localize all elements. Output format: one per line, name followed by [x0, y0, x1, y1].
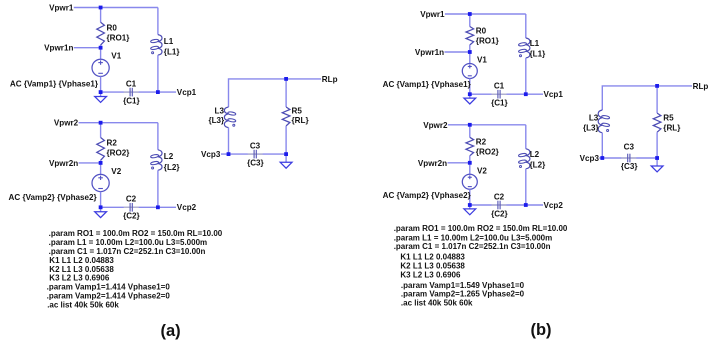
svg-text:.ac list 40k 50k 60k: .ac list 40k 50k 60k: [47, 301, 119, 310]
svg-text:Vpwr2: Vpwr2: [54, 119, 79, 128]
svg-text:L1: L1: [530, 39, 540, 48]
svg-text:Vcp2: Vcp2: [544, 201, 564, 210]
svg-text:AC {Vamp1} {Vphase1}: AC {Vamp1} {Vphase1}: [383, 80, 472, 89]
svg-text:C3: C3: [250, 141, 261, 150]
svg-text:V1: V1: [477, 56, 487, 65]
svg-text:.param C1 = 1.017n C2=252.1n C: .param C1 = 1.017n C2=252.1n C3=10.00n: [49, 247, 206, 256]
svg-text:R5: R5: [663, 114, 674, 123]
svg-text:.param RO1 = 100.0m RO2 = 150.: .param RO1 = 100.0m RO2 = 150.0m RL=10.0…: [394, 224, 568, 233]
svg-text:K2 L1 L3 0.05638: K2 L1 L3 0.05638: [49, 265, 114, 274]
svg-text:R5: R5: [292, 106, 303, 115]
svg-text:.ac list 40k 50k 60k: .ac list 40k 50k 60k: [401, 299, 473, 308]
svg-text:{RL}: {RL}: [292, 116, 310, 125]
svg-text:R0: R0: [476, 27, 487, 36]
svg-text:{L2}: {L2}: [530, 160, 547, 169]
svg-text:Vpwr1n: Vpwr1n: [44, 44, 73, 53]
svg-text:AC {Vamp1} {Vphase1}: AC {Vamp1} {Vphase1}: [10, 79, 99, 88]
svg-text:{RO2}: {RO2}: [107, 149, 131, 158]
svg-text:Vcp2: Vcp2: [177, 203, 197, 212]
svg-text:{C1}: {C1}: [491, 99, 508, 108]
svg-text:{L1}: {L1}: [530, 50, 547, 59]
svg-text:(b): (b): [530, 321, 551, 339]
svg-text:AC {Vamp2} {Vphase2}: AC {Vamp2} {Vphase2}: [9, 193, 98, 202]
svg-text:Vpwr1n: Vpwr1n: [415, 48, 444, 57]
svg-text:{C3}: {C3}: [621, 162, 638, 171]
svg-text:Vpwr2n: Vpwr2n: [49, 159, 78, 168]
svg-text:.param RO1 = 100.0m RO2 = 150.: .param RO1 = 100.0m RO2 = 150.0m RL=10.0…: [49, 229, 223, 238]
svg-text:Vcp1: Vcp1: [177, 88, 197, 97]
svg-text:L1: L1: [164, 37, 174, 46]
svg-text:.param C1 = 1.017n C2=252.1n C: .param C1 = 1.017n C2=252.1n C3=10.00n: [394, 242, 551, 251]
svg-text:Vpwr2n: Vpwr2n: [418, 159, 447, 168]
svg-text:L3: L3: [589, 114, 599, 123]
svg-text:Vpwr2: Vpwr2: [423, 121, 448, 130]
svg-text:{L2}: {L2}: [164, 163, 181, 172]
svg-text:R2: R2: [476, 137, 487, 146]
svg-text:C3: C3: [624, 142, 635, 151]
svg-text:R0: R0: [107, 23, 118, 32]
svg-text:L2: L2: [530, 150, 540, 159]
svg-text:V1: V1: [111, 52, 121, 61]
svg-text:K1 L1 L2 0.04883: K1 L1 L2 0.04883: [400, 253, 465, 262]
svg-text:(a): (a): [161, 322, 181, 340]
svg-text:K3 L2 L3 0.6906: K3 L2 L3 0.6906: [49, 274, 110, 283]
svg-text:Vcp3: Vcp3: [580, 154, 600, 163]
svg-text:L2: L2: [164, 152, 174, 161]
svg-text:.param L1 = 10.00m L2=100.0u L: .param L1 = 10.00m L2=100.0u L3=5.000m: [394, 233, 553, 242]
svg-text:Vpwr1: Vpwr1: [49, 4, 74, 13]
svg-text:L3: L3: [215, 106, 225, 115]
svg-text:{L1}: {L1}: [164, 48, 181, 57]
svg-text:{L3}: {L3}: [583, 124, 600, 133]
svg-text:{RO1}: {RO1}: [107, 33, 131, 42]
svg-text:{RO1}: {RO1}: [476, 37, 500, 46]
svg-text:Vcp3: Vcp3: [201, 150, 221, 159]
svg-text:.param Vamp1=1.549 Vphase1=0: .param Vamp1=1.549 Vphase1=0: [401, 281, 525, 290]
svg-text:C1: C1: [126, 79, 137, 88]
svg-text:.param Vamp1=1.414 Vphase1=0: .param Vamp1=1.414 Vphase1=0: [47, 283, 171, 292]
svg-text:.param Vamp2=1.414 Vphase2=0: .param Vamp2=1.414 Vphase2=0: [47, 292, 171, 301]
svg-text:K1 L1 L2 0.04883: K1 L1 L2 0.04883: [49, 256, 114, 265]
svg-text:{L3}: {L3}: [208, 116, 225, 125]
svg-text:{C3}: {C3}: [247, 158, 264, 167]
svg-text:Vpwr1: Vpwr1: [420, 10, 445, 19]
svg-text:{C1}: {C1}: [123, 96, 140, 105]
svg-text:V2: V2: [477, 166, 487, 175]
svg-text:C1: C1: [494, 82, 505, 91]
svg-text:{C2}: {C2}: [491, 210, 508, 219]
svg-text:C2: C2: [126, 195, 137, 204]
svg-text:{RO2}: {RO2}: [476, 147, 500, 156]
svg-text:V2: V2: [111, 167, 121, 176]
svg-text:RLp: RLp: [693, 82, 709, 91]
svg-text:{C2}: {C2}: [123, 212, 140, 221]
svg-text:K2 L1 L3 0.05638: K2 L1 L3 0.05638: [400, 262, 465, 271]
svg-text:K3 L2 L3 0.6906: K3 L2 L3 0.6906: [400, 271, 461, 280]
svg-text:.param Vamp2=1.265 Vphase2=0: .param Vamp2=1.265 Vphase2=0: [401, 290, 525, 299]
svg-text:R2: R2: [107, 139, 118, 148]
svg-text:{RL}: {RL}: [663, 124, 681, 133]
svg-text:.param L1 = 10.00m L2=100.0u L: .param L1 = 10.00m L2=100.0u L3=5.000m: [49, 238, 208, 247]
svg-text:RLp: RLp: [322, 75, 338, 84]
svg-text:Vcp1: Vcp1: [544, 90, 564, 99]
svg-text:C2: C2: [494, 193, 505, 202]
svg-text:AC {Vamp2} {Vphase2}: AC {Vamp2} {Vphase2}: [383, 191, 472, 200]
